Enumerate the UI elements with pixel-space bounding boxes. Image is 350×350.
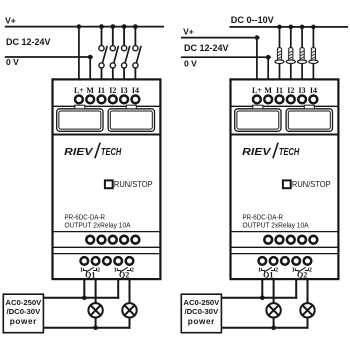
svg-text:RIEV: RIEV [242,146,271,158]
svg-text:0 V: 0 V [184,58,197,68]
svg-text:L+: L+ [252,86,262,95]
svg-text:V+: V+ [5,16,16,26]
svg-text:/DC0-30V: /DC0-30V [184,307,219,316]
svg-text:M: M [264,86,272,95]
svg-text:Q2: Q2 [297,271,307,280]
svg-text:DC 0--10V: DC 0--10V [231,15,274,25]
svg-text:L+: L+ [74,86,84,95]
svg-text:2: 2 [131,267,134,274]
svg-text:OUTPUT 2xRelay 10A: OUTPUT 2xRelay 10A [65,221,131,229]
svg-text:2: 2 [97,267,100,274]
svg-text:M: M [86,86,94,95]
svg-text:DC 12-24V: DC 12-24V [6,37,51,47]
svg-text:RUN/STOP: RUN/STOP [114,179,153,189]
svg-text:RUN/STOP: RUN/STOP [292,179,331,189]
svg-text:PR-6DC-DA-R: PR-6DC-DA-R [65,214,106,222]
svg-text:I4: I4 [310,86,317,95]
svg-text:PR-6DC-DA-R: PR-6DC-DA-R [243,214,284,222]
svg-text:1: 1 [80,267,83,274]
svg-text:I3: I3 [299,86,306,95]
svg-text:OUTPUT 2xRelay 10A: OUTPUT 2xRelay 10A [243,221,309,229]
svg-text:1: 1 [292,267,295,274]
svg-text:Q2: Q2 [119,271,129,280]
svg-text:1: 1 [114,267,117,274]
svg-text:/DC0-30V: /DC0-30V [6,307,41,316]
svg-text:I3: I3 [121,86,128,95]
svg-text:I2: I2 [109,86,116,95]
svg-text:0 V: 0 V [6,57,19,67]
svg-text:I1: I1 [98,86,105,95]
svg-text:V+: V+ [183,27,194,37]
svg-text:RIEV: RIEV [64,146,93,158]
svg-text:Q1: Q1 [263,271,273,280]
svg-text:2: 2 [309,267,312,274]
svg-text:2: 2 [275,267,278,274]
svg-text:I1: I1 [276,86,283,95]
svg-text:1: 1 [258,267,261,274]
svg-text:Q1: Q1 [85,271,95,280]
svg-text:power: power [10,317,37,326]
svg-text:TECH: TECH [101,147,122,158]
svg-text:power: power [188,317,215,326]
svg-text:DC 12-24V: DC 12-24V [184,43,229,53]
svg-text:TECH: TECH [279,147,300,158]
svg-text:I4: I4 [132,86,139,95]
svg-text:I2: I2 [287,86,294,95]
